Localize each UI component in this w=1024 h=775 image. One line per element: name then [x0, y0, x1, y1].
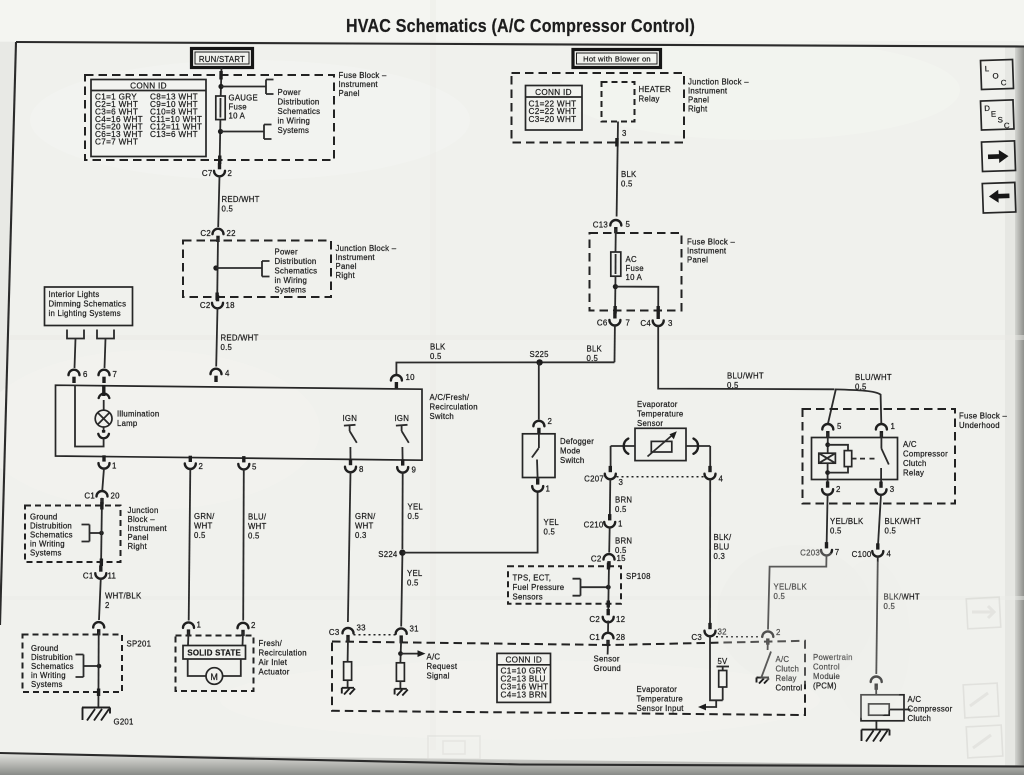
ground G201 [82, 708, 134, 727]
svg-text:2: 2 [251, 621, 256, 630]
5V supply and pull-up resistor R3 [717, 657, 730, 700]
svg-text:C1: C1 [83, 572, 94, 581]
svg-text:Fuse Block –: Fuse Block – [339, 71, 387, 80]
node junction at gauge fuse top [218, 84, 223, 89]
svg-text:Right: Right [128, 542, 148, 551]
svg-text:5: 5 [252, 462, 257, 471]
wire BRN 0.5 (C207 to C210) [610, 478, 632, 518]
connector C3 pin 33 [329, 624, 366, 642]
svg-text:Panel: Panel [687, 256, 708, 265]
svg-text:Sensors: Sensors [513, 593, 543, 602]
svg-text:Ground: Ground [30, 513, 58, 522]
svg-text:Systems: Systems [275, 286, 307, 295]
wire AC fuse to C6 [614, 276, 617, 316]
svg-text:C: C [1001, 78, 1007, 87]
svg-text:Instrument: Instrument [688, 87, 728, 96]
connector above SP201 [93, 622, 104, 635]
svg-text:C4=13 BRN: C4=13 BRN [501, 691, 548, 700]
label A/C clutch relay control [776, 655, 803, 693]
svg-text:Sensor: Sensor [637, 419, 663, 428]
connector C7 pin 2 [202, 163, 232, 178]
svg-text:C100: C100 [852, 550, 872, 559]
svg-text:3: 3 [668, 319, 673, 328]
svg-text:4: 4 [225, 369, 230, 378]
svg-text:CONN ID: CONN ID [130, 82, 167, 91]
svg-text:1: 1 [197, 620, 202, 629]
svg-text:IGN: IGN [343, 414, 358, 423]
connector defogger pin 1 [532, 478, 550, 493]
svg-text:Instrument: Instrument [339, 80, 379, 89]
wire tick crossing fuse box top [219, 71, 223, 80]
bleed-through ghost marks [428, 545, 1003, 759]
svg-text:Junction Block –: Junction Block – [336, 244, 397, 253]
svg-text:Illumination: Illumination [117, 410, 159, 419]
label powertrain control module PCM [813, 653, 853, 691]
svg-text:Block –: Block – [128, 515, 156, 524]
resistor R1 (pin 33 load) [344, 637, 352, 688]
svg-text:3: 3 [622, 129, 627, 138]
svg-text:L: L [985, 64, 990, 73]
svg-text:RED/WHT: RED/WHT [221, 334, 259, 343]
wire C2-12 to C1-28 [607, 621, 609, 633]
splice SP108 box [508, 566, 651, 604]
svg-text:15: 15 [617, 554, 627, 563]
wire tick crossing junction box bottom [215, 293, 218, 301]
svg-text:Hot with Blower on: Hot with Blower on [583, 55, 651, 64]
svg-text:BLK/: BLK/ [714, 533, 732, 542]
svg-text:C13: C13 [593, 220, 609, 229]
svg-text:Instrument: Instrument [687, 247, 727, 256]
powertrain control module box [332, 641, 805, 715]
connector C2 pin 18 [200, 295, 235, 310]
svg-text:Defogger: Defogger [560, 437, 594, 446]
svg-text:Schematics: Schematics [30, 531, 73, 540]
label junction block instrument panel right (heater) [688, 78, 749, 114]
svg-text:Panel: Panel [128, 533, 149, 542]
svg-text:0.3: 0.3 [714, 552, 726, 561]
svg-text:WHT: WHT [248, 522, 267, 531]
node junction in block [213, 265, 218, 270]
svg-text:1: 1 [546, 485, 551, 494]
svg-text:C207: C207 [584, 475, 604, 484]
svg-text:0.5: 0.5 [248, 532, 260, 541]
fuse block underhood box [803, 409, 956, 504]
svg-text:Temperature: Temperature [637, 695, 684, 704]
label ground distribution schematics (lower) [31, 644, 74, 689]
svg-text:Distribution: Distribution [275, 257, 317, 266]
wire BLK/BLU 0.3 (pin 4 to C3-32) [710, 478, 732, 626]
svg-text:Systems: Systems [31, 680, 63, 689]
svg-text:1: 1 [112, 462, 117, 471]
svg-text:C4: C4 [640, 319, 651, 328]
connector C207 pin 3 [584, 466, 623, 487]
connector relay pin 5 [822, 422, 842, 437]
nav box prev arrow [982, 182, 1016, 213]
svg-text:SOLID STATE: SOLID STATE [187, 649, 241, 658]
svg-text:IGN: IGN [395, 414, 410, 423]
svg-text:Fresh/: Fresh/ [259, 639, 283, 648]
svg-text:7: 7 [113, 370, 118, 379]
svg-text:0.5: 0.5 [407, 579, 419, 588]
svg-text:0.5: 0.5 [194, 531, 206, 540]
SP201 splice box [23, 635, 123, 693]
connector C1 pin 28 [589, 633, 625, 646]
svg-text:Power: Power [275, 248, 299, 257]
svg-text:Temperature: Temperature [637, 410, 684, 419]
svg-text:C2: C2 [589, 615, 600, 624]
svg-text:A/C/Fresh/: A/C/Fresh/ [430, 393, 470, 402]
resistor R2 (pin 31 load) [396, 638, 404, 689]
connector table CONN ID (junction block) [526, 86, 583, 131]
bracket ground distribution (upper) [82, 525, 104, 542]
wire YEL 0.5 (S224 to pin 31) [401, 556, 423, 627]
svg-text:10 A: 10 A [229, 112, 246, 121]
svg-text:C3: C3 [329, 628, 340, 637]
connector table CONN ID (PCM) [497, 653, 551, 702]
connector defogger pin 2 [533, 417, 552, 434]
label junction block instrument panel right (ground path) [128, 506, 168, 551]
wire GRN/WHT 0.3 (pin8 to C3-33) [348, 472, 376, 622]
wire branch to power distribution bracket (top) [221, 80, 274, 95]
svg-text:Sensor: Sensor [594, 655, 620, 664]
svg-text:4: 4 [887, 550, 892, 559]
svg-text:C13=6 WHT: C13=6 WHT [150, 130, 198, 139]
wire tick crossing AC fuse box bottom left [613, 306, 616, 314]
ground (pin 31 load) [395, 689, 408, 696]
svg-text:3: 3 [619, 478, 624, 487]
A/C Fresh Recirculation switch box [56, 385, 423, 460]
fuse block instrument panel box (top left) [85, 75, 334, 160]
svg-text:S225: S225 [530, 350, 550, 359]
svg-text:in Wiring: in Wiring [275, 276, 308, 285]
svg-text:C6: C6 [597, 318, 608, 327]
wire YEL/BLK 0.5 (relay 2 to C203) [827, 494, 864, 546]
svg-text:(PCM): (PCM) [813, 682, 837, 691]
label defogger mode switch [560, 437, 594, 465]
connector C1 pin 20 [84, 491, 120, 504]
connector switch pin 7 [99, 370, 118, 383]
nav box next arrow [982, 141, 1016, 172]
heater relay box [602, 82, 672, 122]
connector pin 31 [396, 625, 419, 642]
dotted link C207-3 to pin 4 [617, 476, 705, 478]
connector C210 pin 1 [584, 514, 623, 529]
interior lights dimming reference box [45, 287, 133, 326]
svg-text:Distribution: Distribution [278, 98, 320, 107]
svg-text:Fuse Block –: Fuse Block – [959, 412, 1007, 421]
label ground distribution schematics (upper) [30, 513, 73, 558]
svg-text:9: 9 [412, 466, 417, 475]
node junction below AC fuse [613, 284, 618, 289]
svg-text:2: 2 [199, 462, 204, 471]
ground (compressor clutch) [862, 730, 890, 742]
svg-text:7: 7 [626, 318, 631, 327]
svg-text:GAUGE: GAUGE [229, 94, 258, 103]
svg-text:Evaporator: Evaporator [637, 685, 678, 694]
svg-text:0.5: 0.5 [885, 527, 897, 536]
connector C2 pin 12 [589, 609, 625, 624]
svg-text:2: 2 [105, 601, 110, 610]
svg-text:C2: C2 [591, 554, 602, 563]
svg-text:A/C: A/C [903, 440, 917, 449]
svg-text:0.5: 0.5 [621, 180, 633, 189]
svg-text:BLK: BLK [430, 343, 446, 352]
wire clutch to ground [875, 721, 877, 730]
svg-text:Request: Request [427, 662, 458, 671]
wire YEL 0.5 (pin9 to S224) [402, 472, 423, 549]
svg-text:O: O [992, 71, 999, 80]
connector actuator pin 1 [183, 620, 201, 635]
svg-text:0.5: 0.5 [855, 383, 867, 392]
fuse block instrument panel box (AC fuse) [590, 233, 682, 311]
ground (pin 33 load) [342, 688, 355, 695]
svg-text:0.5: 0.5 [587, 354, 599, 363]
wire stub bracket left (pin 6 feed) [67, 330, 84, 369]
page frame top border [16, 42, 1024, 47]
fresh recirculation air inlet actuator box [176, 636, 254, 692]
connector relay pin 2 [822, 481, 841, 494]
svg-text:WHT/BLK: WHT/BLK [105, 592, 142, 601]
svg-text:2: 2 [548, 417, 553, 426]
svg-text:YEL/BLK: YEL/BLK [830, 517, 864, 526]
fuse AC 10A [611, 252, 644, 282]
A/C compressor clutch relay U1 [812, 433, 898, 485]
svg-text:10 A: 10 A [626, 273, 643, 282]
svg-text:GRN/: GRN/ [355, 512, 376, 521]
connector C4 pin 3 [640, 313, 673, 328]
svg-text:Ground: Ground [31, 644, 59, 653]
label A/C/Fresh/Recirculation Switch [430, 393, 478, 421]
wire branch to power distribution bracket (bottom) [221, 125, 272, 140]
wire YEL/BLK 0.5 (C203 to PCM pin 2) [768, 555, 827, 630]
svg-text:SP108: SP108 [626, 572, 651, 581]
svg-text:G201: G201 [114, 718, 134, 727]
svg-text:Panel: Panel [336, 262, 357, 271]
svg-text:Panel: Panel [339, 89, 360, 98]
svg-text:0.5: 0.5 [544, 528, 556, 537]
svg-text:8: 8 [359, 465, 364, 474]
connector pin 4 (sensor right) [705, 466, 724, 484]
svg-text:Compressor: Compressor [908, 705, 953, 714]
svg-text:WHT: WHT [194, 522, 213, 531]
sensor right lead and connector arc [686, 439, 710, 470]
svg-text:0.5: 0.5 [727, 381, 739, 390]
svg-text:WHT: WHT [355, 522, 374, 531]
svg-text:C1: C1 [589, 633, 600, 642]
svg-text:10: 10 [406, 373, 416, 382]
svg-text:6: 6 [83, 370, 88, 379]
wire tick crossing heater junction box bottom [615, 138, 618, 147]
svg-text:BLK: BLK [587, 345, 603, 354]
svg-text:in Writing: in Writing [31, 671, 66, 680]
wire A/C request signal arrow [401, 650, 426, 657]
connector C2 pin 15 [591, 554, 626, 567]
wire C4 BLU/WHT 0.5 to relay [658, 325, 892, 423]
wire RED/WHT 0.5 (C7 to C2) [218, 176, 259, 228]
wire fuse to C7 [219, 120, 222, 165]
svg-text:Relay: Relay [903, 469, 924, 478]
svg-text:BLK: BLK [621, 170, 637, 179]
label evaporator temperature sensor input [637, 685, 685, 713]
wire WHT/BLK 2 [99, 578, 142, 620]
label power distribution schematics (junction block) [275, 248, 318, 295]
splice S224 [378, 549, 405, 559]
wire switch pin1 to C1 [102, 468, 104, 490]
ign switch S-a [343, 414, 358, 460]
svg-text:Switch: Switch [560, 456, 584, 465]
svg-text:BLU/WHT: BLU/WHT [727, 372, 764, 381]
svg-text:Ground: Ground [594, 664, 622, 673]
ign switch S-b [395, 414, 410, 460]
dotted link pin33 to pin31 [354, 634, 397, 636]
svg-text:S224: S224 [378, 550, 398, 559]
svg-text:Compressor: Compressor [903, 450, 948, 459]
svg-text:BRN: BRN [615, 537, 632, 546]
label power distribution schematics (fuse block) [278, 88, 321, 135]
connector switch pin 5 [238, 456, 257, 471]
wire BLK/WHT 0.5 (relay 3 to C100) [878, 494, 921, 547]
wire C1-28 into PCM (sensor ground) [607, 641, 609, 655]
svg-text:RED/WHT: RED/WHT [222, 195, 260, 204]
svg-text:YEL: YEL [408, 503, 424, 512]
svg-text:M: M [210, 672, 218, 682]
svg-text:CONN ID: CONN ID [505, 655, 542, 664]
wire C13 to AC fuse [615, 229, 617, 252]
svg-text:Panel: Panel [688, 96, 709, 105]
svg-text:Relay: Relay [639, 95, 660, 104]
svg-text:Underhood: Underhood [959, 421, 1000, 430]
svg-text:Fuse: Fuse [626, 264, 644, 273]
svg-text:Lamp: Lamp [117, 419, 138, 428]
wire BLU/WHT 0.5 (pin5 to actuator 2) [243, 469, 267, 621]
svg-text:Fuse Block –: Fuse Block – [687, 238, 735, 247]
svg-text:Instrument: Instrument [128, 524, 168, 533]
wire tick crossing ground box top [100, 502, 103, 510]
connector A/C compressor clutch top [871, 677, 882, 690]
wire BRN 0.5 (C210 to C2) [609, 527, 632, 555]
svg-text:3: 3 [890, 485, 895, 494]
svg-text:4: 4 [719, 475, 724, 484]
wire tick crossing AC fuse box bottom right [657, 306, 660, 314]
label fuse block underhood [959, 412, 1007, 431]
junction block instrument panel right box (heater relay) [512, 73, 685, 143]
svg-text:BLK/WHT: BLK/WHT [885, 517, 921, 526]
svg-text:Recirculation: Recirculation [259, 649, 307, 658]
connector C3 pin 32 [691, 623, 726, 642]
svg-text:Distrubition: Distrubition [31, 653, 73, 662]
motor M [188, 659, 241, 684]
wire defogger pin 2 feed from S225 [538, 362, 540, 419]
sensor left lead and connector arc [611, 439, 635, 470]
svg-text:Recirculation: Recirculation [430, 403, 478, 412]
svg-text:C3=20 WHT: C3=20 WHT [529, 115, 577, 124]
label sensor ground [594, 655, 622, 674]
bracket ground distribution (lower) [76, 655, 102, 678]
Hot with Blower on label [573, 50, 661, 68]
svg-text:2: 2 [836, 485, 841, 494]
svg-text:Air Inlet: Air Inlet [259, 658, 288, 667]
wire RUN/START to fuse [220, 68, 223, 97]
svg-text:in Wiring: in Wiring [278, 117, 311, 126]
svg-text:BLU/WHT: BLU/WHT [855, 373, 892, 382]
wire stub bracket right (pin 7 feed) [97, 330, 114, 369]
svg-text:D: D [984, 104, 990, 113]
connector C13 pin 5 [593, 220, 631, 233]
illumination lamp L1 [95, 385, 112, 438]
svg-text:Clutch: Clutch [903, 459, 927, 468]
svg-text:HVAC Schematics (A/C Compresso: HVAC Schematics (A/C Compressor Control) [346, 15, 695, 36]
label YEL 0.5 (defogger leg) [544, 518, 560, 537]
svg-text:11: 11 [108, 572, 117, 581]
connector C1 pin 11 [83, 565, 116, 580]
svg-text:Dimming Schematics: Dimming Schematics [49, 300, 127, 309]
svg-text:A/C: A/C [908, 695, 922, 704]
svg-text:1: 1 [891, 422, 896, 431]
connector switch pin 1 [99, 455, 117, 470]
sensor body [635, 428, 686, 460]
svg-text:HEATER: HEATER [639, 85, 672, 94]
svg-text:C1: C1 [84, 491, 95, 500]
svg-text:0.5: 0.5 [615, 505, 627, 514]
label illumination lamp [117, 410, 159, 429]
page frame bottom border [0, 753, 1024, 767]
svg-text:20: 20 [111, 491, 121, 500]
svg-text:12: 12 [616, 615, 625, 624]
wire branch to C4 pin 3 [615, 287, 658, 317]
svg-text:Interior Lights: Interior Lights [49, 290, 100, 299]
svg-text:0.5: 0.5 [222, 205, 234, 214]
wire tick crossing fuse box bottom [218, 156, 221, 165]
junction block IP right box (ground path) [25, 506, 121, 563]
svg-text:TPS, ECT,: TPS, ECT, [513, 574, 552, 583]
svg-text:28: 28 [616, 633, 626, 642]
dotted link C3-32 to PCM pin 2 [716, 636, 762, 638]
wire through junction block [216, 238, 219, 298]
svg-text:Actuator: Actuator [259, 668, 290, 677]
svg-text:RUN/START: RUN/START [199, 55, 245, 64]
svg-text:YEL: YEL [544, 518, 560, 527]
bracket TPS sensors [573, 579, 611, 596]
svg-text:A/C: A/C [427, 653, 441, 662]
svg-text:0.3: 0.3 [355, 531, 367, 540]
svg-text:Instrument: Instrument [336, 253, 376, 262]
svg-text:Clutch: Clutch [908, 714, 932, 723]
defogger mode switch S2 [523, 434, 556, 478]
connector C6 pin 7 [597, 312, 630, 327]
A/C compressor clutch coil [861, 686, 911, 721]
label fuse block instrument panel (AC fuse) [687, 238, 735, 265]
svg-text:Schematics: Schematics [31, 662, 74, 671]
svg-text:Switch: Switch [430, 412, 454, 421]
svg-text:Sensor Input: Sensor Input [637, 704, 685, 713]
connector switch pin 8 [345, 459, 364, 474]
svg-text:5: 5 [837, 422, 842, 431]
label fuse block instrument panel [339, 71, 387, 98]
connector switch pin 9 [397, 459, 416, 474]
connector switch pin 2 [185, 456, 203, 471]
junction block instrument panel right box (upper) [183, 241, 331, 298]
svg-text:Mode: Mode [560, 447, 581, 456]
svg-text:33: 33 [357, 624, 367, 633]
svg-text:Schematics: Schematics [275, 267, 318, 276]
svg-text:Fuel Pressure: Fuel Pressure [513, 583, 565, 592]
svg-text:Junction Block –: Junction Block – [688, 78, 749, 87]
svg-text:Systems: Systems [30, 549, 62, 558]
svg-text:C2: C2 [200, 301, 211, 310]
label A/C compressor clutch [908, 695, 953, 723]
svg-text:C7=7 WHT: C7=7 WHT [95, 137, 138, 146]
svg-text:SP201: SP201 [127, 640, 152, 649]
